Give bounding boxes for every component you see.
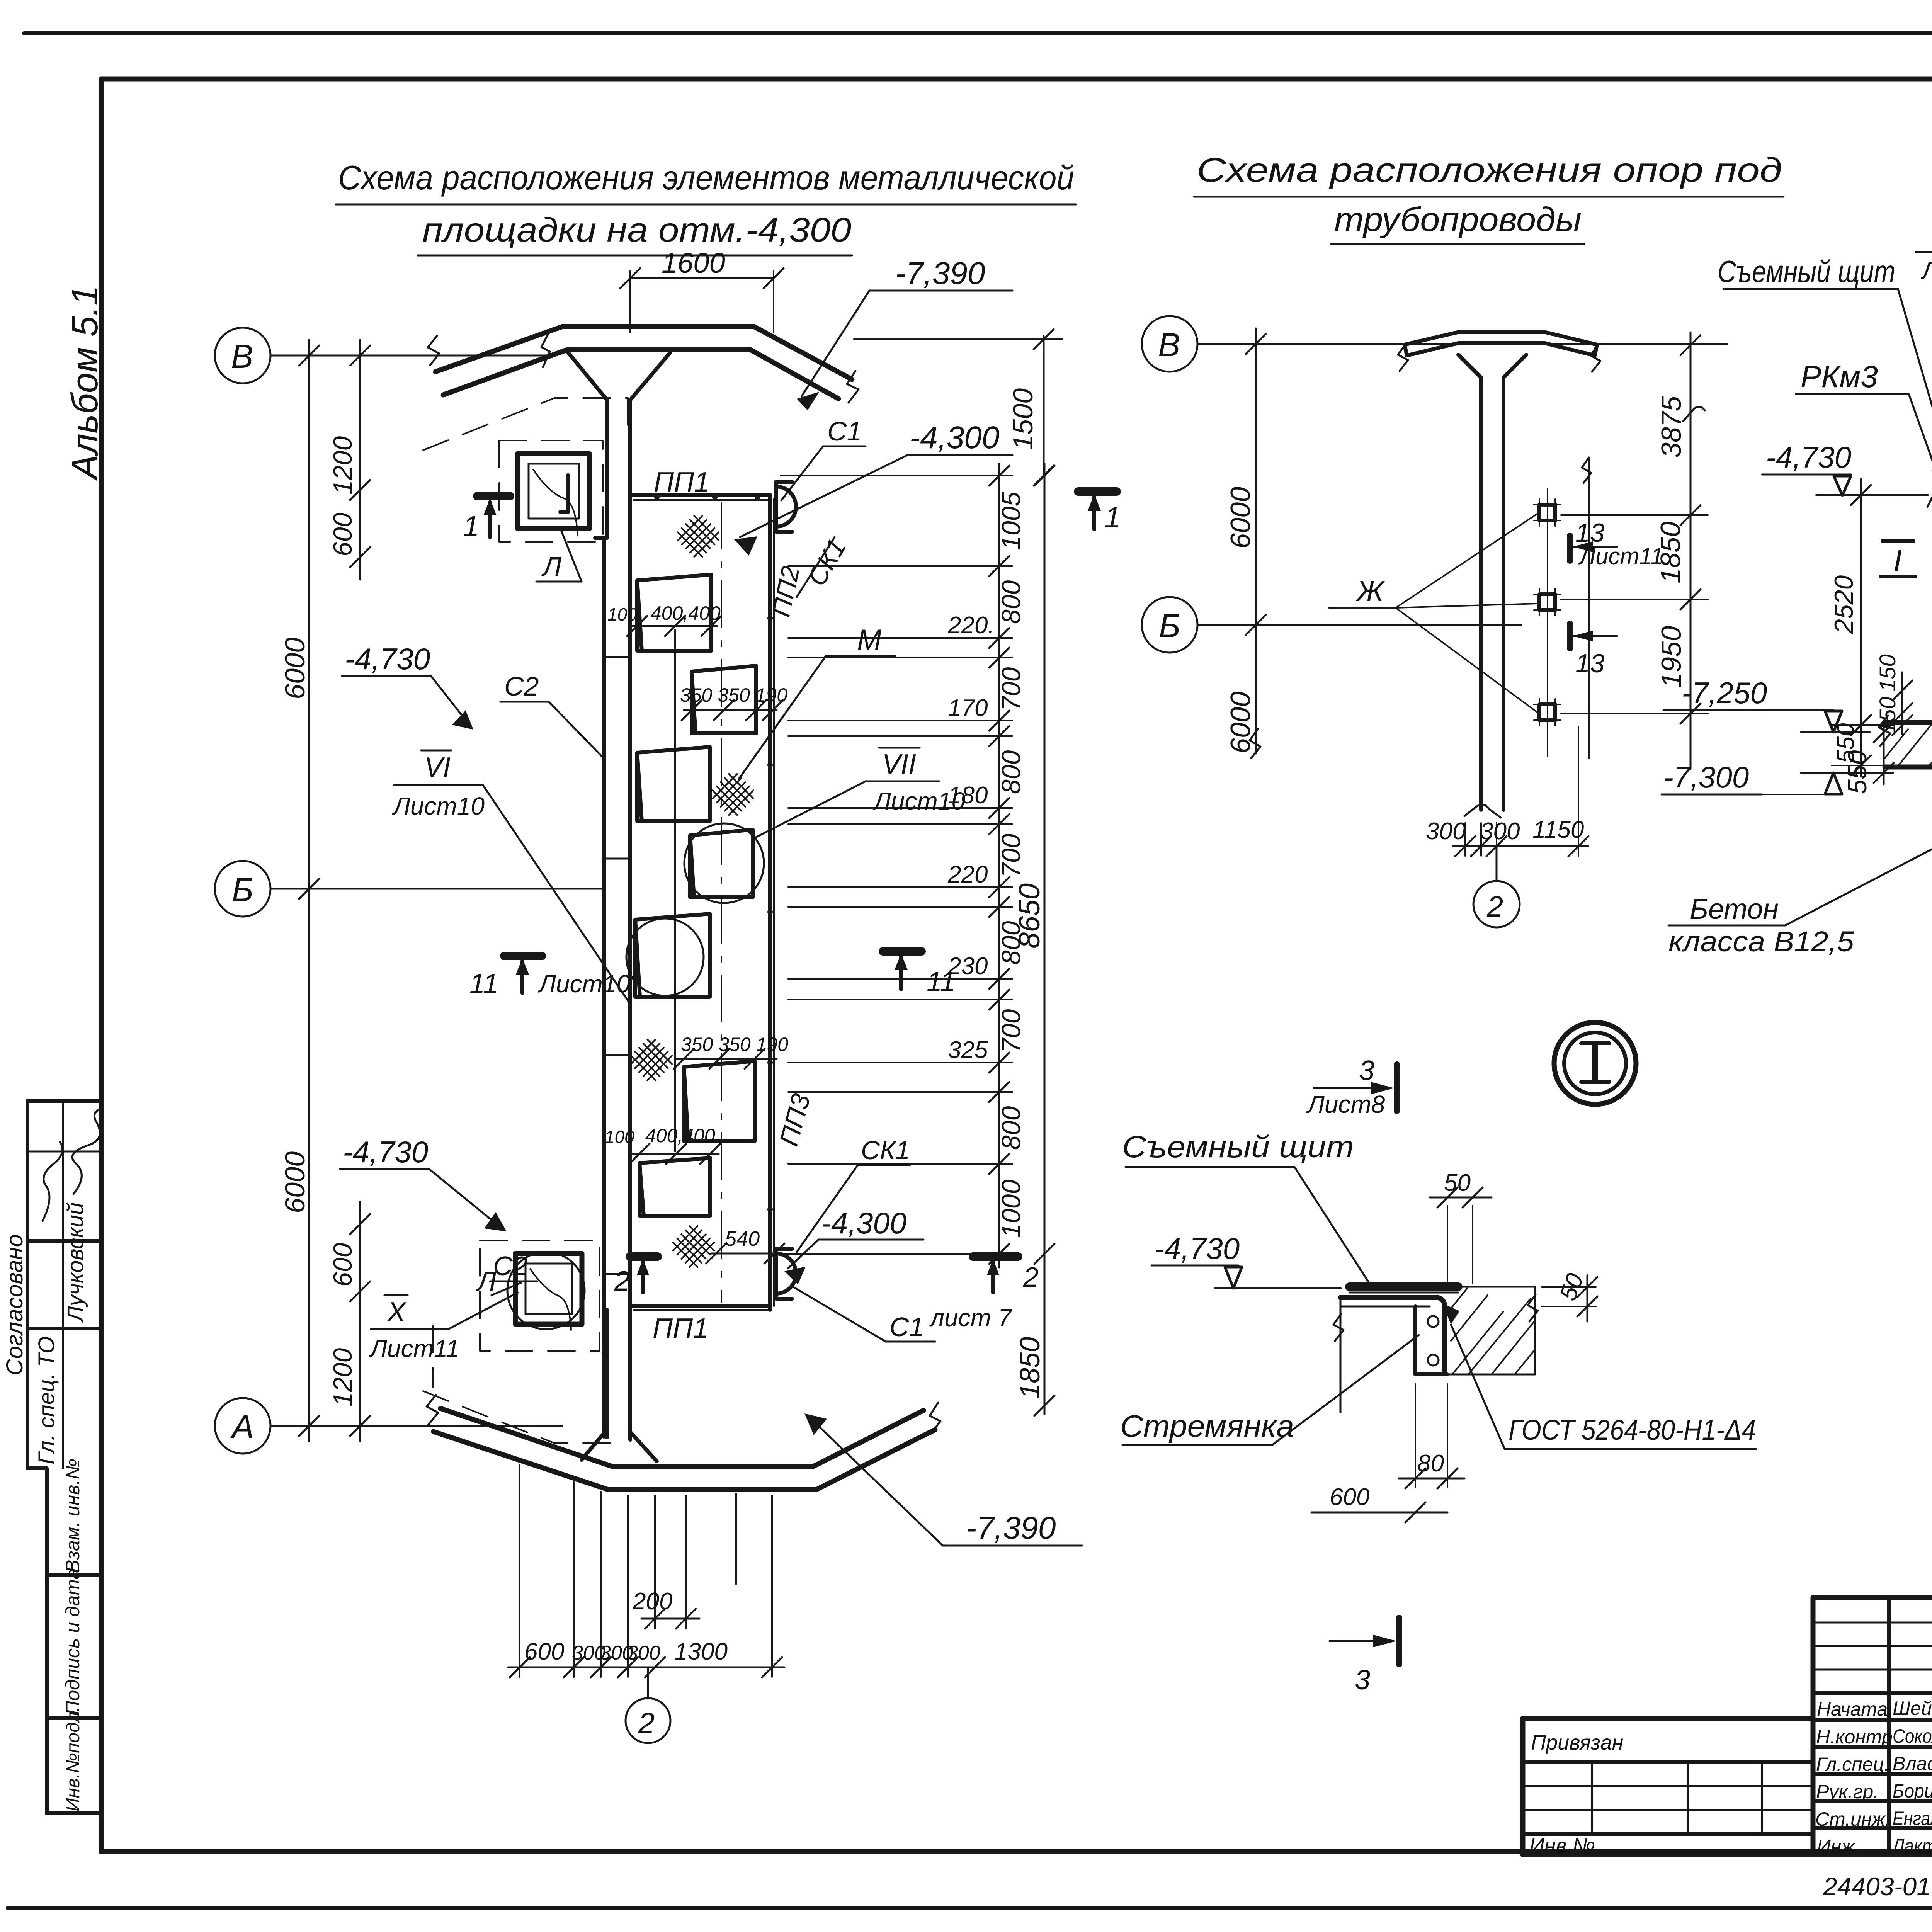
svg-text:Согласовано: Согласовано	[2, 1234, 27, 1376]
axis line В middle	[1197, 343, 1727, 345]
mesh hatch M3	[627, 1035, 676, 1084]
svg-text:ПП3: ПП3	[774, 1090, 816, 1149]
svg-text:220: 220	[947, 861, 988, 888]
hidden dashed outline bottom corner	[423, 1391, 618, 1443]
svg-text:М: М	[857, 624, 882, 656]
svg-text:600: 600	[524, 1638, 564, 1665]
svg-text:350 350 190: 350 350 190	[680, 684, 787, 706]
svg-text:Лист11: Лист11	[369, 1335, 459, 1362]
svg-text:-4,300: -4,300	[910, 420, 1000, 455]
svg-text:Гл.спец.: Гл.спец.	[1816, 1753, 1889, 1775]
left stamp column box lower	[27, 1466, 47, 1470]
svg-text:Схема расположения опор под: Схема расположения опор под	[1197, 151, 1782, 189]
svg-text:2: 2	[638, 1707, 655, 1740]
svg-text:А: А	[230, 1408, 254, 1446]
svg-text:Ст.инж.: Ст.инж.	[1815, 1808, 1891, 1830]
svg-text:С2: С2	[504, 671, 539, 701]
floor left slab hatch	[1885, 724, 1932, 767]
middle dim 6000 line	[1255, 328, 1257, 753]
svg-text:В: В	[1158, 327, 1180, 364]
svg-text:Б: Б	[1159, 607, 1180, 645]
svg-text:1150: 1150	[1532, 816, 1584, 843]
svg-text:24403-01: 24403-01	[1823, 1872, 1931, 1901]
hatch люк top box	[518, 454, 589, 529]
middle chevron outer	[1405, 332, 1597, 345]
detail dashed top	[1345, 1298, 1422, 1299]
panel P3	[637, 747, 710, 821]
hatch люк bottom box	[515, 1253, 582, 1324]
svg-text:3: 3	[1355, 1665, 1370, 1696]
svg-text:325: 325	[948, 1037, 988, 1063]
svg-text:300: 300	[627, 1642, 660, 1664]
svg-text:класса В12,5: класса В12,5	[1668, 925, 1854, 957]
svg-text:С2: С2	[493, 1251, 527, 1281]
panel P1	[637, 575, 711, 651]
svg-text:-4,730: -4,730	[1154, 1231, 1240, 1265]
svg-text:200: 200	[632, 1588, 672, 1615]
svg-text:I: I	[1893, 543, 1902, 578]
svg-text:Схема расположения элементов м: Схема расположения элементов металлическ…	[338, 158, 1074, 197]
svg-text:800: 800	[997, 921, 1026, 965]
right dim chain extension lines	[781, 475, 1012, 476]
title block upper narrow rows	[1813, 1622, 1932, 1624]
svg-text:1: 1	[1104, 501, 1121, 534]
svg-text:ГОСТ 5264-80-Н1-Δ4: ГОСТ 5264-80-Н1-Δ4	[1509, 1414, 1756, 1446]
support square 3	[1539, 704, 1555, 720]
chevron break marks top	[428, 336, 439, 365]
section mark 2 right with Лист7	[973, 1252, 1018, 1261]
svg-text:1000: 1000	[997, 1180, 1026, 1238]
left dim line subdivisions	[359, 340, 361, 580]
svg-text:Лист9: Лист9	[1920, 257, 1932, 284]
svg-text:-7,390: -7,390	[895, 256, 985, 291]
svg-text:2: 2	[614, 1266, 630, 1297]
svg-text:2: 2	[1486, 890, 1503, 923]
panel ПП1 bottom edge	[630, 1304, 770, 1308]
svg-text:Лучковский: Лучковский	[63, 1202, 88, 1323]
svg-text:ПП1: ПП1	[653, 1313, 708, 1344]
svg-text:11: 11	[469, 968, 498, 999]
detail plate	[1349, 1282, 1458, 1291]
svg-text:Енгалычева: Енгалычева	[1893, 1808, 1932, 1829]
svg-text:трубопроводы: трубопроводы	[1334, 200, 1582, 238]
title block main outline	[1813, 1597, 1932, 1855]
axis circle Б middle	[1142, 597, 1197, 653]
sheet outer bottom edge	[8, 1906, 1932, 1910]
svg-text:Инж.: Инж.	[1817, 1836, 1860, 1857]
svg-text:Начата: Начата	[1817, 1698, 1888, 1720]
svg-text:800: 800	[997, 1106, 1026, 1150]
title block signature rows	[1813, 1691, 1932, 1695]
frame bottom border	[101, 1849, 1932, 1854]
right dim chain ticks	[989, 466, 1009, 486]
panel ПП1 top edge	[630, 493, 770, 497]
hidden dashed outline top corner	[423, 398, 628, 450]
panel P5 with circle	[635, 914, 710, 997]
section mark 1 left	[477, 492, 510, 500]
title block signature table verticals	[1887, 1597, 1891, 1855]
top wall chevron outer	[435, 327, 852, 379]
middle T-stem	[1458, 355, 1481, 378]
supports line	[1547, 489, 1548, 756]
shaft left wall	[602, 538, 606, 1437]
dashed pit outline bottom	[480, 1240, 600, 1351]
svg-text:Съемный щит: Съемный щит	[1122, 1129, 1354, 1164]
svg-text:Л: Л	[541, 551, 562, 582]
chevron break marks bottom	[427, 1395, 438, 1425]
svg-text:Б: Б	[232, 871, 253, 908]
section arrow 3 lower	[1396, 1618, 1402, 1664]
svg-text:Съемный щит: Съемный щит	[1718, 254, 1895, 289]
svg-text:VII: VII	[882, 749, 916, 780]
svg-text:-4,300: -4,300	[821, 1206, 906, 1240]
bottom wall chevron outer	[434, 1430, 935, 1490]
svg-text:Лактионов: Лактионов	[1891, 1835, 1932, 1857]
detail concrete hatch	[1446, 1287, 1535, 1374]
svg-text:Лист10: Лист10	[872, 787, 965, 815]
svg-text:50: 50	[1444, 1170, 1471, 1196]
svg-text:Подпись и дата: Подпись и дата	[62, 1569, 83, 1715]
axis circle Б left	[215, 861, 270, 917]
svg-text:3875: 3875	[1656, 396, 1687, 458]
floor left slab	[1885, 699, 1932, 723]
svg-text:Гл. спец. ТО: Гл. спец. ТО	[34, 1336, 59, 1464]
svg-text:800: 800	[997, 580, 1026, 624]
svg-text:Сокольская: Сокольская	[1893, 1725, 1932, 1747]
svg-text:400,400: 400,400	[645, 1125, 715, 1146]
support square 2	[1539, 594, 1555, 610]
svg-text:1005: 1005	[997, 492, 1026, 550]
svg-text:150: 150	[1875, 654, 1900, 692]
middle chevron inner	[1407, 343, 1595, 355]
T-column stem bottom	[605, 1310, 609, 1437]
svg-text:ПП1: ПП1	[654, 467, 709, 498]
frame top border	[101, 77, 1932, 82]
svg-text:6000: 6000	[280, 1151, 311, 1213]
detail angle bracket	[1340, 1298, 1445, 1372]
svg-text:11: 11	[927, 966, 956, 997]
svg-text:600: 600	[328, 1243, 357, 1287]
top wall chevron inner	[443, 350, 838, 399]
svg-text:Н.контр: Н.контр	[1816, 1726, 1893, 1748]
svg-text:Власенко: Власенко	[1893, 1753, 1932, 1774]
svg-text:Борисенко: Борисенко	[1893, 1780, 1932, 1802]
svg-text:1500: 1500	[1008, 388, 1039, 450]
right dim chain outer 8650	[1044, 464, 1046, 1414]
svg-text:170: 170	[948, 695, 988, 721]
svg-text:700: 700	[997, 1009, 1026, 1053]
svg-text:С1: С1	[889, 1312, 924, 1342]
svg-text:СК1: СК1	[861, 1136, 910, 1165]
section mark 11 right	[883, 947, 922, 956]
sheet outer top edge	[24, 31, 1932, 35]
section flag 13 upper	[1567, 536, 1573, 561]
section left dim chain 2520 550	[1860, 479, 1862, 777]
detail bolt holes	[1428, 1316, 1439, 1327]
middle bottom extensions	[1480, 823, 1482, 856]
svg-text:СК1: СК1	[802, 534, 852, 591]
svg-text:2520: 2520	[1829, 575, 1859, 634]
svg-text:1850: 1850	[1015, 1337, 1046, 1399]
middle stem break mark	[1464, 804, 1501, 818]
middle right dim chain	[1690, 332, 1692, 769]
panel P2	[692, 666, 756, 733]
section mark 1 right	[1078, 487, 1117, 496]
svg-text:площадки на отм.-4,300: площадки на отм.-4,300	[422, 211, 851, 249]
svg-text:1200: 1200	[328, 436, 357, 495]
svg-text:Инв.№подл.: Инв.№подл.	[63, 1707, 83, 1811]
svg-text:540: 540	[725, 1227, 760, 1250]
mesh hatch M4	[669, 1222, 718, 1271]
bottom wall chevron inner	[440, 1408, 923, 1466]
svg-text:-7,390: -7,390	[966, 1510, 1056, 1546]
stamp signature squiggles	[43, 1142, 63, 1221]
svg-text:2: 2	[1023, 1262, 1039, 1293]
svg-text:Ж: Ж	[1355, 575, 1385, 608]
svg-text:350 350 190: 350 350 190	[681, 1034, 788, 1055]
svg-text:400,400: 400,400	[651, 602, 721, 624]
svg-text:600: 600	[1330, 1484, 1369, 1510]
shaft right wall	[768, 495, 772, 1310]
svg-text:100: 100	[605, 1127, 634, 1147]
T-column stem top	[605, 400, 609, 538]
svg-text:VI: VI	[424, 752, 451, 783]
svg-text:Шейко: Шейко	[1893, 1697, 1932, 1719]
svg-text:-4,730: -4,730	[345, 642, 430, 676]
axis line Б left	[270, 888, 602, 890]
svg-text:лист 7: лист 7	[929, 1304, 1013, 1332]
axis circle 2 bottom	[647, 1667, 649, 1699]
svg-text:Бетон: Бетон	[1690, 893, 1779, 925]
axis line В left	[270, 355, 547, 357]
svg-text:-4,730: -4,730	[1766, 440, 1851, 474]
svg-text:Альбом 5.1: Альбом 5.1	[64, 285, 105, 481]
svg-text:1300: 1300	[674, 1638, 728, 1665]
svg-text:600: 600	[328, 512, 357, 556]
svg-text:Инв.№: Инв.№	[1529, 1834, 1595, 1857]
section mark 2 left	[630, 1252, 658, 1261]
svg-text:800: 800	[997, 750, 1026, 794]
bottom extension lines	[519, 1464, 520, 1677]
bracket СК1 top	[776, 482, 792, 532]
svg-text:Лист10: Лист10	[392, 792, 485, 820]
middle chain extensions	[1561, 514, 1708, 516]
svg-text:С1: С1	[827, 416, 862, 446]
svg-text:Стремянка: Стремянка	[1120, 1409, 1294, 1443]
svg-text:6000: 6000	[280, 638, 311, 699]
frame left border	[99, 79, 104, 1852]
svg-text:700: 700	[997, 667, 1026, 711]
svg-text:В: В	[231, 338, 253, 375]
svg-text:Лист8: Лист8	[1306, 1090, 1385, 1118]
svg-text:РКм3: РКм3	[1801, 359, 1878, 394]
svg-text:Взам. инв.№: Взам. инв.№	[62, 1459, 83, 1573]
svg-text:Привязан: Привязан	[1531, 1731, 1623, 1754]
mesh hatch M2	[708, 770, 757, 819]
panel P6	[684, 1061, 755, 1141]
axis circle А left	[215, 1398, 270, 1454]
svg-text:13: 13	[1575, 649, 1605, 678]
svg-text:1200: 1200	[328, 1348, 357, 1406]
axis circle 2 middle	[1496, 846, 1498, 881]
right dim chain inner	[998, 464, 1000, 1267]
svg-text:Лист11: Лист11	[1578, 543, 1663, 569]
axis circle В middle	[1142, 316, 1197, 372]
svg-text:-7,300: -7,300	[1663, 760, 1749, 794]
section arrow 3 upper	[1394, 1065, 1400, 1111]
svg-text:1600: 1600	[662, 247, 725, 279]
svg-text:6000: 6000	[1225, 487, 1256, 549]
axis circle В left	[215, 328, 270, 383]
svg-text:1850: 1850	[1655, 522, 1686, 583]
support square 1	[1539, 505, 1555, 520]
svg-text:6000: 6000	[1225, 692, 1256, 753]
panel P4 with circle	[690, 830, 753, 897]
svg-text:550: 550	[1833, 723, 1859, 763]
svg-text:100: 100	[607, 604, 637, 624]
svg-text:X: X	[386, 1297, 407, 1328]
panel P7	[639, 1158, 710, 1216]
mesh hatch M1	[673, 512, 723, 561]
section flag 13 lower	[1567, 624, 1573, 648]
bracket СК1 bottom	[776, 1249, 792, 1299]
svg-text:Рук.гр.: Рук.гр.	[1816, 1781, 1879, 1803]
node circle I	[1554, 1022, 1636, 1104]
panel extension line	[674, 630, 676, 1151]
section mark 11 left	[504, 952, 542, 960]
detail wall left	[1340, 1298, 1342, 1412]
svg-text:-4,730: -4,730	[343, 1135, 428, 1169]
svg-text:300: 300	[1426, 818, 1466, 845]
middle centerline	[1588, 457, 1590, 759]
svg-text:-7,250: -7,250	[1682, 676, 1767, 710]
axis line Б middle	[1197, 624, 1521, 626]
svg-text:3: 3	[1359, 1055, 1374, 1086]
left stamp column box upper	[27, 1099, 100, 1103]
middle chevron break marks	[1398, 344, 1408, 371]
attachment table	[1523, 1716, 1813, 1721]
svg-text:1: 1	[463, 510, 479, 543]
svg-text:220.: 220.	[947, 612, 995, 639]
shaft centerline	[721, 502, 722, 1302]
axis line А left	[270, 1425, 562, 1427]
left dim line 6000 outer	[308, 340, 310, 1441]
dashed pit outline top	[499, 440, 603, 542]
svg-text:700: 700	[997, 833, 1026, 878]
